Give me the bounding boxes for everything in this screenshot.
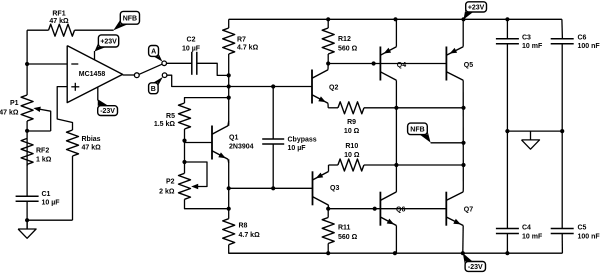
svg-text:Q3: Q3 [330,185,339,192]
svg-text:-23V: -23V [100,108,115,115]
svg-text:4.7 kΩ: 4.7 kΩ [237,44,259,51]
svg-text:R8: R8 [239,223,248,230]
svg-text:RF1: RF1 [52,11,65,18]
svg-text:C4: C4 [522,225,531,232]
svg-text:Q7: Q7 [464,207,473,214]
svg-text:R9: R9 [347,119,356,126]
svg-text:1 kΩ: 1 kΩ [36,157,52,164]
svg-text:Cbypass: Cbypass [288,136,317,143]
svg-text:10 Ω: 10 Ω [344,152,360,159]
svg-text:Rbias: Rbias [82,136,101,143]
svg-text:47 kΩ: 47 kΩ [49,18,69,25]
svg-text:Q2: Q2 [329,85,338,92]
svg-text:NFB: NFB [123,15,137,22]
svg-text:RF2: RF2 [36,148,49,155]
svg-text:Q6: Q6 [396,207,405,214]
svg-text:-23V: -23V [468,264,483,271]
svg-text:2N3904: 2N3904 [229,144,254,151]
svg-text:Q5: Q5 [464,62,473,69]
svg-text:C3: C3 [522,34,531,41]
svg-text:2 kΩ: 2 kΩ [159,188,175,195]
svg-text:47 kΩ: 47 kΩ [0,109,19,116]
svg-text:10 µF: 10 µF [182,46,201,53]
svg-text:C6: C6 [578,34,587,41]
svg-text:C5: C5 [578,225,587,232]
svg-text:C2: C2 [187,37,196,44]
svg-text:100 nF: 100 nF [578,43,600,50]
svg-text:10 mF: 10 mF [522,43,543,50]
svg-text:1.5 kΩ: 1.5 kΩ [154,121,176,128]
svg-text:R12: R12 [338,36,351,43]
svg-text:P2: P2 [166,178,175,185]
svg-text:Q4: Q4 [397,62,406,69]
svg-text:P1: P1 [10,100,19,107]
svg-text:10 mF: 10 mF [522,233,543,240]
svg-text:R5: R5 [166,113,175,120]
svg-text:NFB: NFB [410,126,424,133]
svg-text:MC1458: MC1458 [79,71,106,78]
svg-text:+23V: +23V [468,4,485,11]
svg-text:+23V: +23V [100,39,117,46]
svg-text:C1: C1 [42,191,51,198]
svg-text:10 Ω: 10 Ω [344,128,360,135]
svg-text:B: B [151,86,156,93]
svg-text:A: A [151,49,156,56]
svg-text:10 µF: 10 µF [42,200,61,207]
svg-text:560 Ω: 560 Ω [338,234,358,241]
svg-text:R11: R11 [338,225,351,232]
svg-text:4.7 kΩ: 4.7 kΩ [239,232,261,239]
svg-text:47 kΩ: 47 kΩ [82,145,102,152]
svg-text:R7: R7 [237,37,246,44]
svg-text:100 nF: 100 nF [578,233,600,240]
svg-text:10 µF: 10 µF [288,145,307,152]
svg-text:560 Ω: 560 Ω [338,45,358,52]
svg-text:R10: R10 [345,143,358,150]
svg-text:Q1: Q1 [229,135,238,142]
